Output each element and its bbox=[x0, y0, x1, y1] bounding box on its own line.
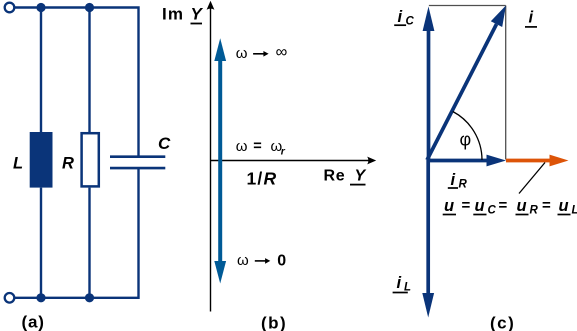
phasor i_R (right) bbox=[427, 159, 488, 163]
admittance locus arrow (double-headed, blue) bbox=[218, 59, 222, 263]
svg-text:ω: ω bbox=[236, 138, 248, 155]
svg-text:=: = bbox=[499, 197, 508, 214]
junction bottom L bbox=[36, 293, 45, 302]
angle arc phi bbox=[453, 112, 482, 161]
svg-text:Y: Y bbox=[355, 168, 367, 185]
svg-text:0: 0 bbox=[277, 253, 286, 270]
svg-text:R: R bbox=[62, 155, 74, 173]
phasor i (diagonal) bbox=[427, 24, 497, 160]
svg-text:R: R bbox=[459, 179, 468, 191]
phasor i_L (down) bbox=[426, 160, 430, 295]
svg-text:(b): (b) bbox=[261, 314, 287, 331]
svg-text:ω: ω bbox=[237, 252, 249, 269]
svg-text:∞: ∞ bbox=[276, 43, 288, 61]
svg-text:(a): (a) bbox=[22, 313, 45, 331]
construction line top bbox=[429, 5, 506, 7]
svg-text:=: = bbox=[253, 139, 261, 155]
svg-text:u: u bbox=[517, 197, 527, 215]
svg-text:ω: ω bbox=[236, 45, 248, 62]
svg-text:Re: Re bbox=[324, 168, 346, 185]
svg-text:u: u bbox=[559, 197, 569, 215]
svg-text:R: R bbox=[530, 205, 539, 217]
svg-text:=: = bbox=[462, 197, 471, 214]
svg-text:i: i bbox=[451, 171, 456, 189]
svg-text:u: u bbox=[444, 197, 454, 215]
capacitor C plates bbox=[110, 155, 165, 158]
svg-text:r: r bbox=[281, 146, 286, 158]
svg-text:(c): (c) bbox=[490, 314, 515, 331]
wire R branch bottom bbox=[88, 188, 90, 298]
phasor i_C (up) bbox=[427, 29, 431, 160]
svg-text:C: C bbox=[158, 134, 171, 153]
inductor L bbox=[30, 132, 53, 188]
junction top L bbox=[36, 3, 45, 12]
svg-text:i: i bbox=[397, 274, 402, 292]
resistor R bbox=[82, 133, 99, 186]
junction top R bbox=[85, 3, 94, 12]
junction bottom R bbox=[85, 293, 94, 302]
terminal bottom-left bbox=[5, 293, 15, 303]
wire bottom rail bbox=[15, 168, 139, 298]
terminal top-left bbox=[5, 3, 15, 13]
svg-text:C: C bbox=[406, 16, 415, 28]
pointer line to u label bbox=[519, 163, 545, 194]
svg-text:φ: φ bbox=[460, 130, 472, 150]
svg-text:u: u bbox=[475, 197, 485, 215]
svg-text:1/R: 1/R bbox=[247, 169, 278, 189]
wire top rail bbox=[15, 8, 139, 157]
axis Im Y (vertical) bbox=[210, 6, 212, 312]
svg-text:i: i bbox=[529, 9, 534, 27]
svg-text:L: L bbox=[572, 205, 577, 217]
label u = u_C = u_R = u_L bbox=[443, 197, 577, 217]
svg-text:i: i bbox=[398, 8, 403, 26]
wire L branch top bbox=[40, 8, 42, 133]
axis Re Y (horizontal) bbox=[211, 160, 371, 162]
svg-text:Im: Im bbox=[162, 5, 184, 24]
wire L branch bottom bbox=[40, 188, 42, 298]
svg-text:C: C bbox=[488, 205, 497, 217]
svg-text:Y: Y bbox=[191, 5, 204, 24]
phasor u (orange) bbox=[506, 159, 551, 163]
wire R branch top bbox=[88, 8, 90, 133]
svg-text:=: = bbox=[542, 197, 551, 214]
svg-text:L: L bbox=[13, 155, 23, 173]
construction line right bbox=[505, 6, 507, 160]
